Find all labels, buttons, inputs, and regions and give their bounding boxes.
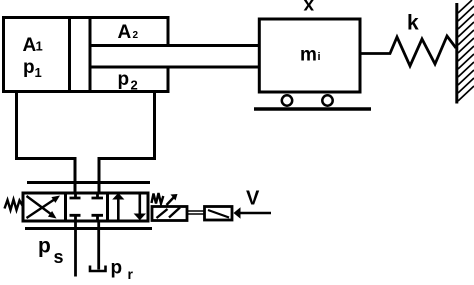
svg-text:s: s (54, 247, 64, 267)
return line pr (97, 221, 100, 270)
valve top line (27, 181, 150, 184)
hydraulic cylinder body (2, 16, 170, 93)
svg-text:A: A (23, 35, 37, 56)
pipe B (right, to valve port) (99, 92, 155, 194)
svg-text:V: V (246, 188, 260, 210)
tank symbol (90, 266, 106, 272)
supply line ps (74, 221, 77, 277)
blocked port T bottom-right (middle box) (92, 215, 104, 221)
svg-text:2: 2 (131, 78, 138, 93)
svg-text:r: r (128, 266, 134, 282)
spring right of valve (on solenoid) (152, 193, 164, 204)
valve bottom line (25, 227, 152, 230)
input arrow V (240, 212, 271, 215)
link rod (double line) (187, 211, 204, 214)
spring left of valve (5, 200, 24, 211)
arrow up (right box) (117, 198, 120, 220)
svg-text:1: 1 (35, 65, 42, 80)
blocked port T top-left (middle box) (70, 193, 81, 198)
feedback box (205, 207, 233, 221)
roller right (322, 95, 332, 105)
blocked port T top-right (middle box) (92, 193, 104, 198)
pipe A (left, to valve port) (17, 92, 76, 194)
svg-text:2: 2 (133, 30, 139, 41)
svg-text:1: 1 (36, 39, 43, 54)
feedback box slash (208, 210, 229, 218)
ground line under mass (254, 107, 371, 110)
proportional arrow over solenoid (167, 197, 175, 206)
svg-text:p: p (38, 235, 51, 258)
solenoid slashes (157, 208, 181, 219)
blocked port T bottom-left (middle box) (70, 215, 81, 221)
arrow down (right box) (139, 195, 142, 215)
valve divider left (64, 193, 67, 221)
piston rod (90, 46, 259, 68)
piston (70, 18, 91, 92)
svg-text:p: p (111, 258, 123, 279)
svg-text:p: p (118, 69, 130, 90)
valve divider right (106, 193, 109, 221)
svg-text:x: x (304, 0, 315, 16)
roller left (282, 95, 292, 105)
mass m block (259, 19, 360, 92)
wall (455, 3, 458, 104)
svg-text:A: A (118, 22, 132, 43)
solenoid box (152, 207, 187, 221)
svg-text:i: i (318, 51, 321, 63)
wall hatching (458, 0, 474, 101)
svg-text:k: k (407, 12, 419, 35)
svg-text:p: p (23, 57, 35, 78)
valve body (23, 193, 148, 221)
svg-text:m: m (300, 45, 317, 66)
spring k (360, 36, 456, 66)
crossed arrows (left box) (27, 196, 56, 218)
